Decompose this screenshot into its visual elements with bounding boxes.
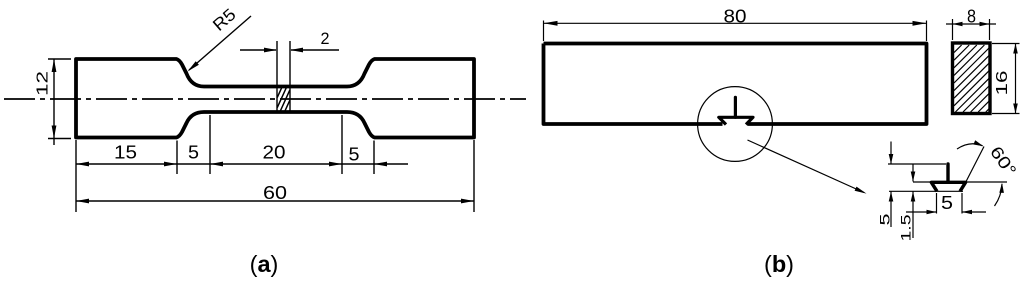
svg-text:20: 20 [263, 143, 286, 163]
horizontal centerline (dash-dot) of specimen (a) [4, 98, 526, 100]
dim 8: left extension line [952, 19, 954, 40]
60 degree angle: slant extension line [964, 147, 985, 187]
detail circle around notch [698, 87, 773, 162]
svg-text:2: 2 [321, 29, 330, 48]
svg-text:60: 60 [263, 183, 287, 203]
notch slit (stem) in bar [734, 97, 737, 117]
60 degree angle: upper arc with arrow [957, 144, 983, 149]
impact bar outline (80 long) [544, 44, 927, 125]
detail dim 1.5: upper arrow segment [912, 164, 914, 182]
svg-text:(b): (b) [764, 251, 794, 277]
dim 8: dimension line [946, 23, 996, 25]
svg-text:12: 12 [35, 71, 52, 96]
60 degree angle: lower arc with arrow [995, 184, 1003, 206]
extension line at x=40mm (gauge end) [341, 115, 343, 174]
dim 80: right extension line [926, 21, 928, 42]
section band right boundary line [289, 41, 291, 113]
detail view: notch slit stem (thick) [946, 164, 949, 182]
extension line at specimen right edge [473, 140, 475, 212]
svg-text:(a): (a) [250, 251, 279, 277]
detail dim 5 (opening): right arrow tail [962, 211, 986, 213]
dim 80: left extension line [543, 21, 545, 42]
detail view: notch bottom surface line [889, 190, 963, 192]
svg-text:1.5: 1.5 [898, 214, 914, 241]
svg-text:8: 8 [967, 7, 976, 27]
svg-text:15: 15 [114, 143, 137, 163]
svg-text:16: 16 [994, 71, 1011, 96]
hatched cut band in gauge section [277, 88, 290, 112]
dimension line "2" right part with arrow [291, 49, 339, 51]
extension line at x=15mm [176, 141, 178, 175]
dim 80: dimension line [544, 22, 927, 24]
detail dim 5 (depth): upper arrow segment [890, 142, 892, 165]
detail view: notch trapezoid (thick) [931, 182, 965, 191]
chain dimension line y=164 [76, 163, 408, 165]
svg-text:5: 5 [349, 145, 360, 165]
svg-text:5: 5 [877, 213, 893, 225]
dim 12: top extension line [48, 58, 71, 60]
dim 16: top extension line [992, 43, 1020, 45]
dim 8: right extension line [989, 19, 991, 40]
detail view: extension line at stem top level [888, 163, 946, 165]
detail dim 5 (opening width): left extension line [936, 193, 938, 214]
extension line at x=20mm (gauge start) [209, 115, 211, 174]
notch slot top bar and dovetail slants [719, 117, 753, 124]
overall dimension line 60 [76, 200, 474, 202]
svg-text:80: 80 [724, 7, 747, 27]
figure (b): impact specimen drawing [544, 7, 1020, 278]
dim 16: bottom extension line [992, 113, 1020, 115]
detail dim 5 (opening width): right extension line [961, 193, 963, 214]
figure (a): tensile dog-bone specimen drawing [4, 5, 526, 277]
svg-text:60°: 60° [986, 143, 1020, 180]
cross-section hatch lines [954, 45, 989, 112]
leader arrow from circle to detail view [748, 140, 865, 193]
dim 12: bottom extension line [48, 138, 71, 140]
cross-section rectangle (8 x 16), hatched [953, 43, 991, 114]
svg-text:5: 5 [941, 193, 953, 213]
leader line for R5 with arrow at fillet [189, 16, 251, 70]
dim 12: vertical dimension line [53, 59, 55, 145]
detail dim 5 (depth): lower arrow segment [890, 192, 892, 228]
svg-text:5: 5 [188, 143, 199, 163]
detail dim 5 (opening): left arrow tail [906, 211, 937, 213]
extension line at specimen left edge [75, 140, 77, 212]
dog-bone specimen outline [76, 59, 474, 138]
section band left boundary line [276, 41, 278, 113]
detail dim 1.5: lower arrow segment [912, 192, 914, 239]
dimension line "2" left part with arrow [240, 49, 276, 51]
dim 16: vertical dimension line [1015, 44, 1017, 114]
detail view: reference line at chamfer shoulder level / angle reference [913, 181, 1007, 183]
extension line at x=45mm [373, 141, 375, 175]
